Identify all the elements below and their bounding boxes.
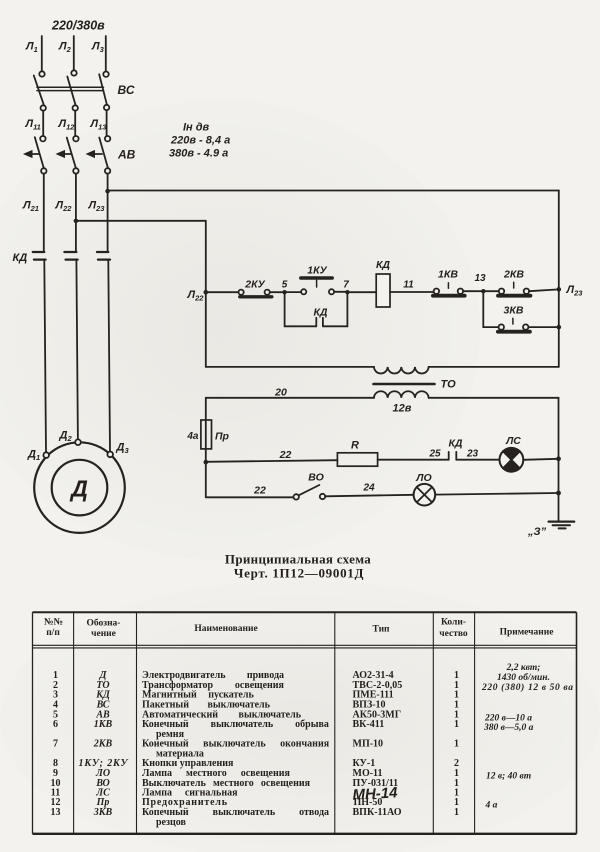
label R (351, 440, 359, 452)
wire vertical A (L22 feed) (205, 221, 207, 367)
table outer border (33, 612, 577, 834)
wire lamp LO to bus (435, 493, 558, 495)
svg-text:24: 24 (362, 483, 375, 494)
label node 5 (282, 280, 288, 291)
svg-text:МН-14: МН-14 (352, 784, 398, 803)
wire L23 branch to control (108, 190, 559, 192)
label 12v (393, 403, 412, 415)
resistor R (337, 453, 377, 466)
wire to motor terminal D1 (44, 261, 46, 453)
label L22 rail (187, 289, 205, 303)
wire 24 VO to lamp LO (325, 495, 413, 497)
label 220/380v (51, 19, 105, 33)
label L23 (88, 200, 106, 214)
wire L22 (75, 174, 77, 251)
breaker AV pole 3 (87, 136, 111, 174)
label D3 (116, 442, 130, 456)
contact KD auxiliary self-holding branch (285, 292, 348, 326)
wire L23 (107, 174, 109, 251)
svg-text:ВО: ВО (308, 472, 324, 484)
motor terminal D1 (43, 452, 49, 458)
node 5 (282, 290, 286, 294)
svg-text:25: 25 (428, 449, 441, 460)
node right bus lower (557, 325, 562, 330)
label node 7 (343, 280, 349, 291)
svg-text:6: 6 (53, 719, 58, 730)
svg-text:13: 13 (474, 273, 486, 284)
motor terminal D2 (75, 439, 81, 445)
svg-text:Iн дв: Iн дв (183, 122, 210, 134)
svg-text:23: 23 (466, 449, 479, 460)
wire 3KV branch down (483, 291, 499, 327)
wire 20 secondary left (206, 397, 374, 399)
wire 23 to lamp LS (456, 459, 499, 461)
wire fuse down (205, 449, 207, 497)
lamp LS (500, 448, 524, 472)
table column: names (142, 670, 330, 828)
wire node7 to coil KD (350, 291, 377, 293)
wire 1KV to node 13 (463, 290, 481, 292)
transformer TO primary winding (374, 367, 429, 374)
title line 1 (225, 552, 371, 567)
svg-text:ТО: ТО (441, 379, 457, 391)
node 13 (481, 289, 485, 293)
svg-text:КД: КД (376, 259, 390, 271)
svg-text:ЛС: ЛС (505, 435, 521, 447)
wire 22 middle row (206, 460, 338, 462)
svg-text:220 в—10 а: 220 в—10 а (484, 714, 532, 724)
label 1KV (438, 269, 458, 281)
svg-text:Коли-: Коли- (441, 618, 466, 628)
svg-text:12 в; 40 вт: 12 в; 40 вт (486, 772, 531, 782)
label wire 11 (403, 280, 414, 291)
wire vertical D (grounded bus) (558, 398, 560, 522)
node 7 (345, 290, 349, 294)
label wire 23 (466, 449, 479, 460)
wire secondary right (429, 397, 559, 399)
label ground Z (527, 526, 547, 538)
node fuse junction (204, 460, 209, 465)
label LS (505, 435, 521, 447)
svg-text:11: 11 (403, 280, 414, 291)
table column: notes (481, 663, 573, 811)
wire 2KV to right bus (529, 289, 559, 291)
label D2 (59, 430, 73, 444)
svg-text:1КВ: 1КВ (94, 719, 113, 730)
label node 13 (474, 273, 486, 284)
svg-text:№№: №№ (44, 618, 63, 628)
wire vertical C (L23 bus) (558, 191, 560, 367)
label D1 (27, 449, 40, 463)
wire to motor terminal D3 (108, 261, 110, 452)
transformer TO primary right wire (429, 366, 559, 368)
svg-text:КД: КД (448, 438, 462, 450)
label L3 (91, 41, 105, 55)
wire vertical B to fuse (205, 398, 207, 420)
svg-text:Пр: Пр (215, 431, 230, 443)
label L2 (58, 41, 72, 55)
node bus at LO row (556, 491, 561, 496)
wire L3 incoming (105, 36, 107, 71)
label L21 (22, 200, 39, 214)
wire lamp LS to bus (523, 459, 558, 460)
svg-text:380 в—5,0 а: 380 в—5,0 а (483, 723, 534, 733)
svg-text:Тип: Тип (372, 625, 390, 635)
switch VS mechanical link (37, 87, 104, 90)
label TO (441, 379, 457, 391)
label KD main contacts (13, 252, 28, 264)
label KD lamp contact (448, 438, 462, 450)
svg-text:4 а: 4 а (485, 801, 498, 811)
wire L2 incoming (73, 36, 75, 70)
svg-text:резцов: резцов (156, 817, 187, 828)
svg-text:220/380в: 220/380в (51, 19, 105, 33)
title line 2 (234, 566, 364, 581)
pushbutton 2KU (239, 290, 272, 297)
label LO (415, 472, 431, 484)
svg-text:220в - 8,4 а: 220в - 8,4 а (170, 135, 230, 147)
label VO (308, 472, 324, 484)
transformer TO core (374, 383, 435, 386)
node right bus upper (557, 287, 562, 292)
svg-text:чение: чение (91, 629, 116, 639)
svg-text:п/п: п/п (46, 628, 60, 638)
svg-text:7: 7 (343, 280, 349, 291)
label wire 20 (274, 387, 287, 399)
svg-text:1: 1 (454, 739, 459, 750)
svg-text:1: 1 (454, 807, 459, 818)
svg-text:ЛО: ЛО (415, 472, 431, 484)
wire rail to 2KU (206, 291, 239, 293)
wire 2KU to node 5 (270, 291, 283, 293)
label AV (117, 148, 136, 162)
svg-text:2КУ: 2КУ (244, 279, 265, 291)
label L11 (25, 118, 41, 132)
svg-text:20: 20 (274, 387, 287, 399)
wire node13 to 2KV (486, 290, 500, 292)
svg-text:Принципиальная схема: Принципиальная схема (225, 552, 371, 567)
table header double rule (33, 645, 577, 648)
svg-text:2КВ: 2КВ (503, 269, 524, 281)
node bus at LS row (556, 456, 561, 461)
label wire 24 (362, 483, 375, 494)
svg-text:R: R (351, 440, 359, 452)
svg-text:1: 1 (454, 719, 459, 730)
table column: designators (79, 670, 129, 818)
node L22 rail junction (204, 290, 209, 295)
label 2KV (503, 269, 524, 281)
wire L12 (74, 111, 76, 136)
wire L22 branch to control (76, 220, 206, 222)
node L23 junction (105, 189, 110, 194)
table column dividers (74, 612, 475, 834)
motor D body (34, 442, 125, 533)
wire L21 (43, 174, 45, 251)
svg-text:МП-10: МП-10 (353, 739, 384, 750)
svg-text:ВК-411: ВК-411 (353, 719, 385, 730)
contactor KD main contact 3 (97, 252, 110, 260)
table column: row numbers (51, 670, 61, 818)
ground symbol (549, 522, 575, 529)
label wire 22 bottom (253, 485, 266, 497)
svg-text:чество: чество (439, 629, 468, 639)
svg-text:Д: Д (69, 476, 88, 502)
coil KD (contactor coil) (376, 274, 390, 307)
handwritten MN-14 (352, 784, 398, 803)
svg-text:3КВ: 3КВ (93, 807, 113, 818)
label KD aux contact (313, 307, 327, 319)
label L12 (58, 118, 76, 132)
label L13 (90, 118, 108, 132)
svg-text:ВС: ВС (118, 83, 135, 97)
label L1 (25, 41, 38, 55)
breaker AV pole 1 (24, 136, 46, 174)
limit switch 2KV (498, 282, 530, 296)
label VS (118, 83, 135, 97)
lamp LO (414, 484, 436, 506)
label 3KV (504, 305, 524, 317)
limit switch 1KV (433, 283, 465, 296)
svg-text:2КВ: 2КВ (93, 739, 113, 750)
label motor D (69, 476, 88, 502)
motor terminal D3 (107, 452, 113, 458)
switch VS pole 1 (34, 71, 46, 110)
node L22 junction (74, 219, 79, 224)
table header texts (44, 618, 553, 640)
switch VO (294, 485, 326, 500)
label In dv ratings (169, 122, 230, 160)
breaker AV pole 2 (57, 136, 79, 174)
label L22 (55, 200, 73, 214)
label 1KU (307, 265, 327, 277)
wire L11 (42, 111, 44, 136)
table column: types (353, 670, 403, 818)
transformer TO primary feed wire (206, 366, 374, 368)
label L23 bus (566, 284, 584, 298)
pushbutton 1KU (301, 278, 334, 294)
svg-text:380в - 4.9 а: 380в - 4.9 а (169, 148, 228, 160)
label 2KU (244, 279, 265, 291)
svg-text:13: 13 (51, 807, 61, 818)
svg-text:1КУ: 1КУ (307, 265, 327, 277)
svg-text:КД: КД (313, 307, 327, 319)
svg-text:КД: КД (13, 252, 28, 264)
table column: quantities (454, 670, 459, 818)
svg-text:Обозна-: Обозна- (87, 618, 121, 629)
svg-text:5: 5 (282, 280, 288, 291)
wire to motor terminal D2 (76, 261, 78, 440)
wire L13 (106, 110, 108, 136)
contactor KD main contact 1 (33, 252, 46, 260)
label coil KD (376, 259, 390, 271)
svg-text:1430 об/мин.: 1430 об/мин. (497, 672, 550, 683)
svg-text:220 (380) 12 в 50 ва: 220 (380) 12 в 50 ва (481, 682, 573, 693)
wire node5 to 1KU (287, 291, 301, 293)
wire L1 incoming (41, 36, 43, 71)
svg-text:22: 22 (279, 449, 292, 461)
svg-text:АВ: АВ (117, 148, 136, 162)
svg-text:7: 7 (53, 739, 58, 750)
svg-text:1КВ: 1КВ (438, 269, 458, 281)
svg-text:Наименование: Наименование (194, 624, 257, 634)
svg-text:„З”: „З” (527, 526, 547, 538)
contact KD in lamp circuit (449, 452, 457, 460)
switch VS pole 3 (99, 72, 109, 111)
wire R to contact KD (378, 459, 449, 461)
label Pr (215, 431, 230, 443)
svg-text:22: 22 (253, 485, 266, 497)
limit switch 3KV (498, 318, 530, 332)
svg-text:3КВ: 3КВ (504, 305, 524, 317)
svg-text:2,2 квт;: 2,2 квт; (506, 663, 541, 673)
svg-text:4а: 4а (186, 431, 199, 442)
label wire 22 middle (279, 449, 292, 461)
contactor KD main contact 2 (64, 252, 77, 260)
wire 3KV to right bus (528, 326, 558, 328)
transformer TO secondary winding (374, 391, 429, 398)
wire 11 coil to 1KV (390, 291, 434, 293)
wire 1KU to node 7 (334, 291, 345, 293)
svg-text:12в: 12в (393, 403, 412, 415)
svg-text:Черт. 1П12—09001Д: Черт. 1П12—09001Д (234, 566, 364, 581)
fuse Pr (201, 420, 212, 449)
label 4a fuse rating (186, 431, 199, 442)
svg-text:ВПК-11АО: ВПК-11АО (353, 807, 402, 818)
wire 22 bottom row (206, 496, 294, 498)
label wire 25 (428, 449, 441, 460)
svg-text:Примечание: Примечание (500, 628, 554, 638)
switch VS pole 2 (67, 70, 78, 110)
